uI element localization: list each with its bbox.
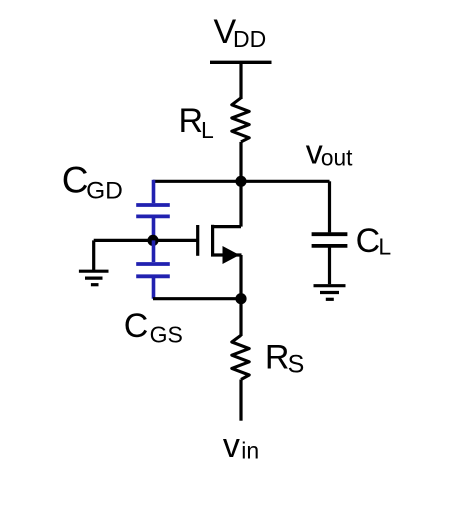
resistor RS [232,335,249,379]
wire source down to node B [239,255,242,299]
svg-text:R: R [179,102,204,140]
transistor M1 channel bar [211,225,214,257]
capacitor CGD [136,205,170,216]
capacitor CGS label [124,307,183,347]
wire (blue) CGD bottom plate to gate node [152,216,156,240]
node A junction dot (vout node) [235,176,246,187]
svg-text:L: L [201,117,214,143]
svg-text:DD: DD [233,26,266,52]
wire gate to ground stub [92,240,95,270]
svg-text:R: R [265,338,290,376]
wire node B horizontal (CGS branch to source) [153,297,241,300]
svg-text:GD: GD [86,178,123,205]
ground (gate bias) [79,271,109,285]
node vout label [306,134,353,172]
capacitor CGS [136,264,170,276]
svg-text:S: S [288,351,305,379]
transistor M1 drain lead [211,225,241,228]
capacitor CGD label [62,159,123,204]
svg-text:C: C [356,222,381,260]
wire node B to RS [239,299,242,336]
wire gate horizontal (ground to MOSFET gate) [94,239,199,242]
node vin label [223,427,259,465]
svg-text:L: L [378,234,391,260]
resistor RL [232,98,249,142]
svg-text:C: C [124,307,149,345]
wire vout node down to CL [328,181,331,232]
node VDD label [214,13,267,52]
svg-text:out: out [321,144,353,170]
capacitor CL label [356,222,392,260]
svg-text:GS: GS [150,321,183,347]
resistor RL label [179,102,215,143]
node gate junction dot [147,235,158,246]
transistor M1 source arrowhead [223,246,240,264]
capacitor CL [312,234,348,246]
wire VDD to RL [239,62,242,99]
wire CL to ground [328,246,331,284]
node B junction dot (source node) [235,293,246,304]
wire RL to node A [239,142,242,182]
wire node A to drain [239,181,242,226]
wire node A horizontal (gate branch to CL branch) [153,180,330,183]
ground (below CL) [314,286,346,300]
power supply VDD bar [210,61,272,64]
svg-text:v: v [223,427,240,465]
svg-text:in: in [241,437,259,463]
wire (blue) CGS bottom plate down to source wire [152,276,156,298]
wire (blue) gate node down to CGS top plate [152,240,156,262]
svg-text:C: C [62,159,89,200]
wire (blue) node A branch down to CGD top plate [152,180,156,203]
transistor M1 gate bar [196,225,199,256]
resistor RS label [265,338,304,378]
transistor M1 source lead [211,253,242,256]
wire RS to vin [239,380,242,421]
